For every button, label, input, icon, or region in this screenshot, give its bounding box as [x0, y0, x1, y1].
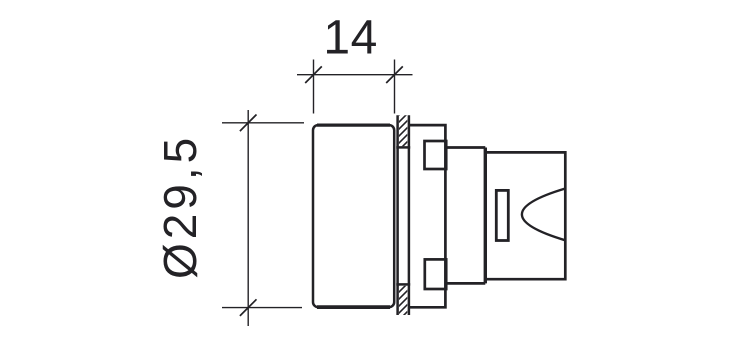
svg-text:14: 14: [323, 11, 377, 64]
svg-text:Ø29,5: Ø29,5: [154, 134, 206, 279]
